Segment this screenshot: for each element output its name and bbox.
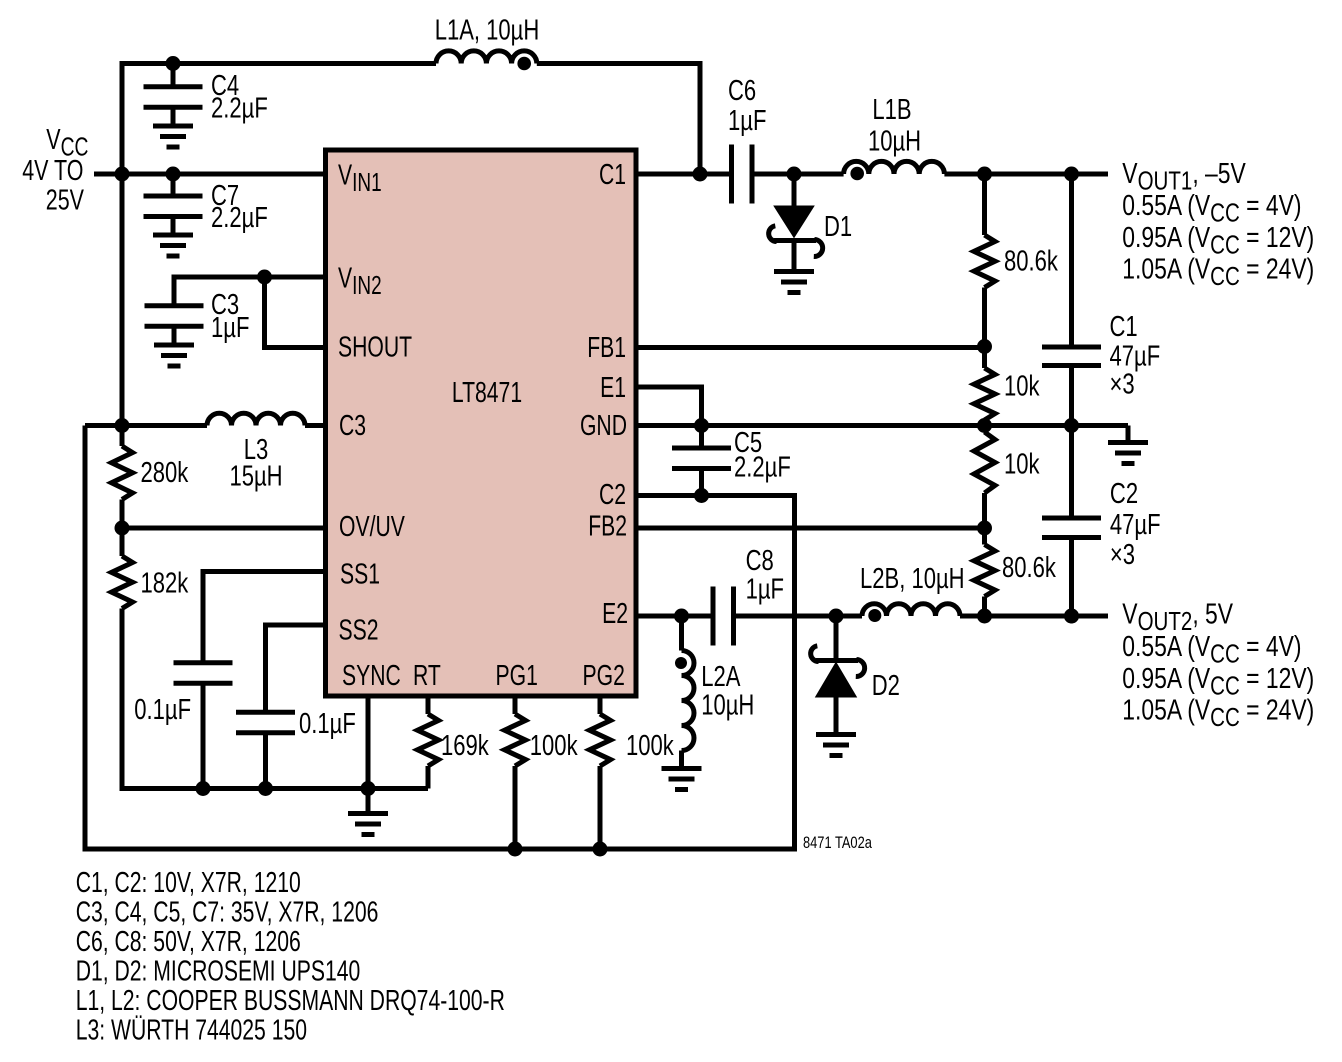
capacitor C1 output [1042, 174, 1101, 426]
pin label SS2 [339, 614, 379, 646]
pin label SS1 [340, 558, 380, 590]
ground below D2 [816, 697, 856, 756]
wire SYNC down [366, 698, 371, 789]
junction C1 cap bottom [1064, 418, 1079, 433]
label 10k upper [1004, 371, 1040, 403]
svg-text:L2A: L2A [701, 661, 741, 693]
label 182k [141, 568, 189, 600]
wire GND [636, 423, 1128, 428]
svg-text:E2: E2 [602, 598, 628, 630]
svg-text:80.6k: 80.6k [1002, 552, 1056, 584]
junction D1 [787, 167, 802, 182]
label 280k [141, 457, 189, 489]
junction VCC/VIN1 left [115, 167, 130, 182]
inductor L2B phase dot [868, 609, 881, 622]
inductor L2B coil [862, 604, 960, 616]
junction PG1 bottom [508, 842, 523, 857]
resistor R 10k lower [974, 426, 995, 529]
ground below C4 [153, 108, 193, 148]
wire SS1 [203, 572, 326, 663]
label D2 [872, 670, 900, 702]
svg-text:C3, C4, C5, C7: 35V, X7R, 1206: C3, C4, C5, C7: 35V, X7R, 1206 [76, 896, 379, 928]
node VCC input label [22, 124, 88, 216]
pin label E2 [602, 598, 628, 630]
wire bottom rail and C2 return [514, 496, 795, 850]
capacitor 0.1uF on SS2 [236, 712, 295, 733]
svg-text:C1: C1 [1110, 311, 1138, 343]
label C1 cap [1110, 311, 1161, 400]
svg-text:C1, C2: 10V, X7R, 1210: C1, C2: 10V, X7R, 1210 [76, 867, 301, 899]
svg-text:PG2: PG2 [583, 660, 625, 692]
junction C1 cap top [1064, 167, 1079, 182]
svg-text:2.2µF: 2.2µF [211, 202, 268, 234]
svg-text:C8: C8 [746, 545, 774, 577]
svg-text:1µF: 1µF [746, 574, 784, 606]
ground below SYNC [348, 789, 388, 835]
wire C8 to D2 [734, 614, 863, 619]
svg-text:OV/UV: OV/UV [339, 511, 405, 543]
svg-text:0.1µF: 0.1µF [299, 708, 356, 740]
ground below C7 [153, 217, 193, 257]
junction left rail / C3 wire [115, 418, 130, 433]
svg-text:×3: ×3 [1110, 539, 1135, 571]
wire top rail right segment [537, 64, 700, 175]
capacitor C5 [672, 448, 731, 496]
label L2B [860, 563, 965, 595]
svg-text:D2: D2 [872, 670, 900, 702]
svg-text:LT8471: LT8471 [452, 377, 522, 409]
label 100k PG2 [626, 730, 674, 762]
label 0.1uF SS2 [299, 708, 356, 740]
svg-text:0.1µF: 0.1µF [134, 694, 191, 726]
svg-text:80.6k: 80.6k [1004, 246, 1058, 278]
svg-text:PG1: PG1 [496, 660, 538, 692]
label 0.1uF SS1 [134, 694, 191, 726]
note line 1 [76, 867, 301, 899]
wire SS2 cap to rail [263, 733, 268, 789]
capacitor C8 [713, 587, 734, 646]
svg-text:L1B: L1B [872, 94, 911, 126]
svg-text:2.2µF: 2.2µF [734, 452, 791, 484]
junction PG2 bottom [593, 842, 608, 857]
node VOUT1 labels [1122, 156, 1314, 290]
junction C6 left [693, 167, 708, 182]
svg-text:10k: 10k [1004, 449, 1040, 481]
label C7 [211, 180, 268, 234]
junction C2 cap / VOUT2 [1064, 609, 1079, 624]
wire left rail upper [120, 174, 125, 446]
svg-text:182k: 182k [141, 568, 189, 600]
junction C2 cap bottom [1064, 609, 1079, 624]
capacitor C4 [144, 64, 203, 108]
diode D2 schottky [811, 616, 865, 697]
svg-text:L1, L2: COOPER BUSSMANN DRQ74-: L1, L2: COOPER BUSSMANN DRQ74-100-R [76, 985, 505, 1017]
svg-text:×3: ×3 [1110, 369, 1135, 401]
svg-text:L3: WÜRTH 744025 150: L3: WÜRTH 744025 150 [76, 1014, 307, 1046]
svg-text:C2: C2 [1110, 478, 1138, 510]
note line 6 [76, 1014, 307, 1046]
capacitor 0.1uF on SS1 [174, 663, 233, 684]
svg-text:8471 TA02a: 8471 TA02a [803, 835, 873, 853]
label 10k lower [1004, 449, 1040, 481]
resistor R 80.6k upper [974, 174, 995, 347]
capacitor C7 [144, 174, 203, 217]
inductor L2A [675, 616, 694, 769]
svg-text:10µH: 10µH [868, 126, 921, 158]
svg-text:100k: 100k [530, 730, 578, 762]
svg-text:RT: RT [413, 660, 441, 692]
label 169k [441, 730, 489, 762]
pin label RT [413, 660, 441, 692]
IC U1 LT8471 dual switching regulator body [326, 150, 637, 696]
ground right of GND [1108, 426, 1148, 464]
pin label PG1 [496, 660, 538, 692]
wire VIN1 [122, 172, 326, 177]
svg-text:C3: C3 [339, 410, 366, 442]
wire VCC stub [94, 172, 123, 177]
wire L2B to VOUT2 [960, 614, 1108, 619]
wire E2 [636, 614, 713, 619]
junction chain1 top [977, 167, 992, 182]
junction FB2 chain [977, 521, 992, 536]
label 8471 TA02a [803, 835, 873, 853]
wire far-left vertical [85, 426, 514, 850]
svg-text:D1: D1 [824, 211, 852, 243]
note line 5 [76, 985, 505, 1017]
ground below L2A [662, 769, 702, 790]
svg-text:169k: 169k [441, 730, 489, 762]
note line 4 [76, 955, 361, 987]
diode D1 schottky [769, 174, 823, 257]
junction E1/GND/C5 [694, 418, 709, 433]
wire 280k to OVUV [120, 500, 125, 529]
junction C4 top [166, 56, 181, 71]
junction GND chain [977, 418, 992, 433]
svg-text:GND: GND [580, 410, 627, 442]
label 100k PG1 [530, 730, 578, 762]
svg-text:1µF: 1µF [211, 312, 249, 344]
label C8 [746, 545, 784, 605]
pin label VIN1 [338, 159, 382, 196]
junction C5 bottom [694, 488, 709, 503]
svg-text:E1: E1 [600, 372, 626, 404]
junction E2/L2A [674, 609, 689, 624]
resistor R 169k [418, 698, 439, 789]
wire VIN2 [174, 277, 326, 305]
pin label FB1 [587, 332, 626, 364]
wire SS1 cap to rail [201, 684, 206, 789]
svg-text:47µF: 47µF [1110, 509, 1161, 541]
junction SYNC [361, 781, 376, 796]
pin label C1 [599, 159, 626, 191]
wire E1 [636, 387, 702, 426]
junction VIN2/SHOUT [257, 270, 272, 285]
wire left rail lower [122, 609, 428, 789]
wire FB1 [636, 345, 985, 350]
svg-text:10k: 10k [1004, 371, 1040, 403]
svg-text:C1: C1 [599, 159, 626, 191]
wire top rail left segment [122, 64, 436, 175]
svg-text:C2: C2 [599, 479, 626, 511]
wire C3 pin to left rail [85, 423, 326, 428]
wire FB2 [636, 526, 985, 531]
junction D2 [829, 609, 844, 624]
resistor R 10k upper [974, 347, 995, 426]
pin label C2 [599, 479, 626, 511]
pin label OV/UV [339, 511, 405, 543]
label C3 [211, 289, 249, 344]
inductor L1B coil [844, 161, 945, 174]
pin label E1 [600, 372, 626, 404]
svg-text:L2B, 10µH: L2B, 10µH [860, 563, 965, 595]
label L3 [229, 434, 282, 492]
junction SS1 cap bottom [196, 781, 211, 796]
inductor L1A phase dot [517, 57, 531, 71]
inductor L1B phase dot [850, 167, 864, 181]
svg-text:4V TO: 4V TO [22, 155, 83, 187]
node VOUT2 labels [1122, 597, 1314, 732]
wire OV/UV [122, 526, 326, 531]
wire L1B to VOUT1 [944, 172, 1108, 177]
label 80.6k lower [1002, 552, 1056, 584]
wire SS2 [266, 625, 327, 712]
junction SS2 cap bottom [258, 781, 273, 796]
resistor R 182k [112, 528, 133, 609]
pin label C3 [339, 410, 366, 442]
svg-text:L1A, 10µH: L1A, 10µH [435, 15, 540, 47]
svg-text:15µH: 15µH [229, 461, 282, 493]
wire C1 pin [636, 172, 732, 177]
pin label GND [580, 410, 627, 442]
wire C5 top [699, 426, 704, 449]
capacitor C6 [732, 145, 753, 204]
capacitor C2 output [1042, 426, 1101, 617]
label L2A [701, 661, 754, 721]
junction FB1 chain [977, 339, 992, 354]
svg-text:10µH: 10µH [701, 690, 754, 722]
pin label VIN2 [338, 262, 382, 299]
svg-text:SS1: SS1 [340, 558, 380, 590]
svg-text:SS2: SS2 [339, 614, 379, 646]
resistor R 280k [112, 446, 133, 500]
ground below D1 [774, 241, 814, 293]
label D1 [824, 211, 852, 243]
junction C7 top [166, 167, 181, 182]
resistor R 100k PG2 [590, 698, 611, 849]
junction chain bottom / VOUT2 [977, 609, 992, 624]
label C4 [211, 70, 268, 124]
pin label FB2 [588, 510, 627, 542]
label L1A value [435, 15, 540, 47]
svg-text:1µF: 1µF [728, 105, 766, 137]
label C5 [734, 427, 791, 483]
note line 2 [76, 896, 379, 928]
junction OV/UV [115, 521, 130, 536]
label 80.6k upper [1004, 246, 1058, 278]
ground below C3 [154, 327, 194, 367]
svg-text:C6: C6 [728, 75, 756, 107]
label C2 cap [1110, 478, 1161, 571]
label L1B [868, 94, 921, 157]
capacitor C3 [145, 306, 204, 327]
svg-text:47µF: 47µF [1110, 341, 1161, 373]
inductor L1A coil [436, 51, 537, 64]
svg-text:100k: 100k [626, 730, 674, 762]
svg-text:SHOUT: SHOUT [338, 331, 412, 363]
label C6 [728, 75, 766, 137]
wire SHOUT link [265, 277, 327, 348]
pin label SHOUT [338, 331, 412, 363]
svg-text:C6, C8: 50V, X7R, 1206: C6, C8: 50V, X7R, 1206 [76, 926, 301, 958]
note line 3 [76, 926, 301, 958]
svg-text:FB1: FB1 [587, 332, 626, 364]
svg-text:SYNC: SYNC [342, 660, 401, 692]
resistor R 100k PG1 [505, 698, 526, 849]
pin label PG2 [583, 660, 625, 692]
svg-text:25V: 25V [46, 184, 84, 216]
svg-text:2.2µF: 2.2µF [211, 93, 268, 125]
pin label SYNC [342, 660, 401, 692]
wire C6 to D1 [752, 172, 844, 177]
resistor R 80.6k lower [974, 528, 995, 616]
svg-text:D1, D2: MICROSEMI UPS140: D1, D2: MICROSEMI UPS140 [76, 955, 361, 987]
inductor L3 coil [207, 413, 305, 425]
svg-text:FB2: FB2 [588, 510, 627, 542]
svg-text:280k: 280k [141, 457, 189, 489]
